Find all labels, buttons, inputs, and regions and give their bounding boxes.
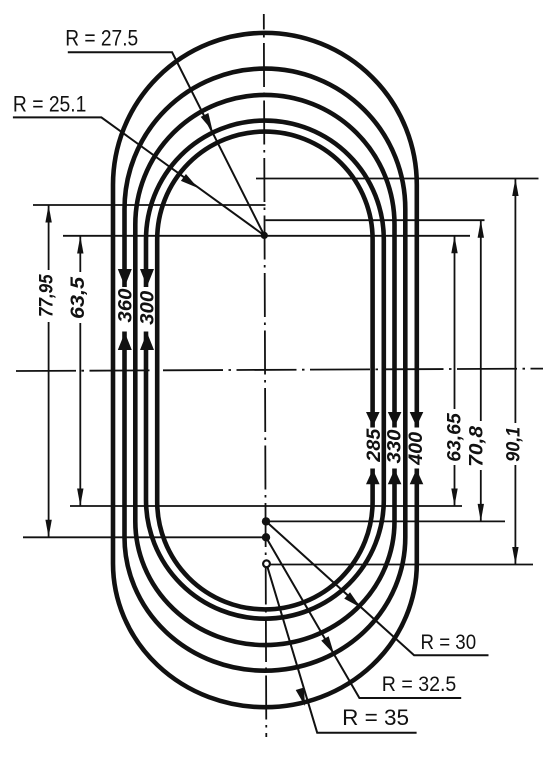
svg-text:400: 400	[406, 431, 427, 465]
svg-text:330: 330	[385, 429, 406, 463]
svg-text:300: 300	[138, 290, 159, 324]
svg-text:90,1: 90,1	[503, 427, 524, 462]
svg-text:R = 32.5: R = 32.5	[382, 673, 457, 696]
svg-text:R = 35: R = 35	[342, 705, 409, 730]
svg-text:70,8: 70,8	[467, 425, 488, 466]
svg-text:77,95: 77,95	[36, 274, 57, 317]
svg-text:63,65: 63,65	[444, 413, 465, 462]
svg-text:360: 360	[116, 288, 137, 322]
svg-text:285: 285	[364, 428, 385, 462]
svg-text:R = 27.5: R = 27.5	[65, 26, 138, 51]
svg-text:R = 25.1: R = 25.1	[13, 91, 87, 116]
svg-text:R = 30: R = 30	[421, 631, 477, 654]
svg-text:63,5: 63,5	[68, 277, 89, 319]
